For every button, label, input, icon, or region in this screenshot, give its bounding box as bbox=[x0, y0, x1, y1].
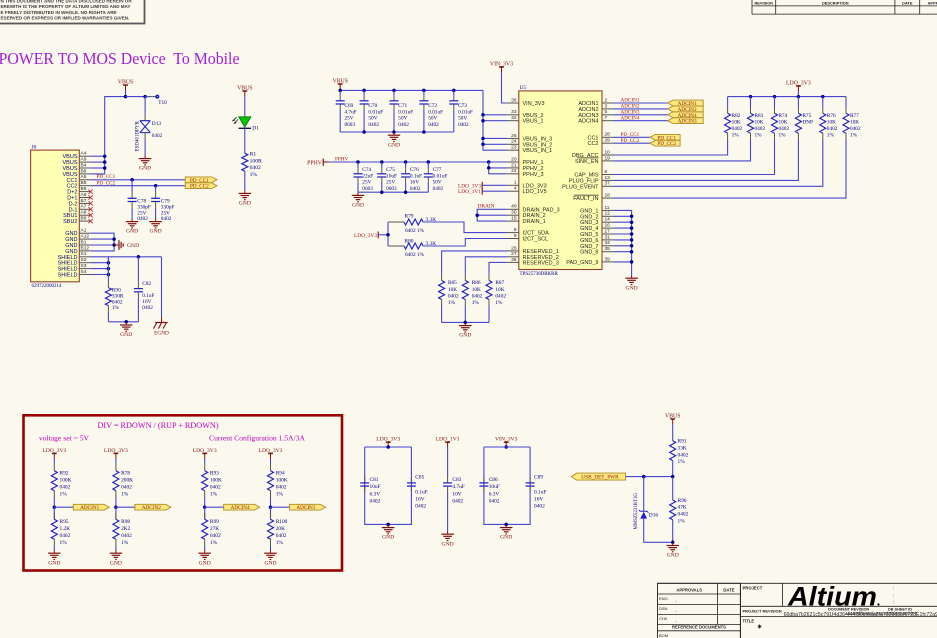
svg-text:R1: R1 bbox=[250, 152, 257, 158]
svg-text:0402: 0402 bbox=[827, 126, 838, 132]
J6 pin B6 D+2 bbox=[79, 191, 90, 193]
svg-text:24: 24 bbox=[511, 139, 517, 145]
svg-text:0.01uF: 0.01uF bbox=[368, 109, 383, 115]
svg-text:25V: 25V bbox=[386, 180, 395, 186]
svg-text:7: 7 bbox=[605, 115, 608, 121]
wire VBUS cap bank top rail bbox=[340, 89, 483, 91]
svg-text:0402: 0402 bbox=[142, 305, 153, 311]
svg-text:S4: S4 bbox=[81, 269, 87, 275]
wire node to R96 bbox=[672, 477, 674, 500]
svg-text:REFERENCE DOCUMENTS: REFERENCE DOCUMENTS bbox=[672, 625, 726, 630]
svg-text:3: 3 bbox=[605, 103, 608, 109]
U5 pin 33 VBUS_2 bbox=[507, 114, 519, 116]
resistor R74 10K bbox=[774, 97, 776, 107]
svg-text:1%: 1% bbox=[732, 132, 740, 138]
ground GND VIN_3V3 caps bbox=[505, 524, 507, 527]
svg-text:40: 40 bbox=[511, 204, 517, 210]
svg-text:APPR: APPR bbox=[928, 0, 937, 5]
svg-text:DATE: DATE bbox=[723, 588, 734, 593]
op-amp U5 TPS25730DRKRR body bbox=[519, 91, 602, 270]
svg-text:27: 27 bbox=[511, 251, 517, 257]
svg-text:DRAIN: DRAIN bbox=[478, 204, 495, 210]
svg-text:VBUS_1: VBUS_1 bbox=[523, 119, 544, 125]
svg-text:9: 9 bbox=[514, 233, 517, 239]
wire VBUS to R91 bbox=[672, 424, 674, 440]
svg-text:16: 16 bbox=[605, 223, 611, 229]
svg-text:100K: 100K bbox=[276, 478, 288, 484]
capacitor C76 0.1uF bbox=[405, 162, 407, 168]
svg-text:1%: 1% bbox=[678, 519, 686, 525]
revision table bbox=[751, 0, 753, 14]
wire I2C pullup rail bbox=[387, 222, 389, 246]
ground GND (ADCIN3 divider) bbox=[270, 550, 272, 553]
wire VBUS pin join bbox=[91, 155, 105, 157]
svg-text:R94: R94 bbox=[276, 471, 285, 477]
svg-text:1%: 1% bbox=[678, 459, 686, 465]
U5 pin 24 VBUS_IN_2 bbox=[507, 143, 519, 145]
U5 pin 15 DRAIN_1 bbox=[507, 220, 519, 222]
svg-text:100K: 100K bbox=[60, 478, 72, 484]
ground GND under C79 bbox=[155, 218, 157, 221]
svg-text:LDO_3V3: LDO_3V3 bbox=[354, 233, 377, 239]
resistor R91 33K bbox=[670, 441, 676, 461]
U5 pin 5 ADCIN3 bbox=[602, 114, 614, 116]
ground GND under R90/C82 bbox=[125, 322, 127, 325]
port ADCIN3 flag bbox=[290, 504, 326, 510]
svg-text:1%: 1% bbox=[448, 300, 456, 306]
title block project area bbox=[739, 583, 741, 638]
port ADCIN1 flag bbox=[668, 100, 704, 106]
svg-text:CC2: CC2 bbox=[587, 141, 598, 147]
svg-text:20: 20 bbox=[511, 156, 517, 162]
wire R80 to SCL bbox=[423, 239, 507, 247]
resistor R83 10K bbox=[750, 97, 752, 107]
svg-text:10K: 10K bbox=[732, 120, 741, 126]
wire R77 to U5 bbox=[614, 140, 846, 198]
resistor R98 2K2 bbox=[115, 507, 117, 519]
resistor R99 27K bbox=[204, 507, 206, 519]
svg-text:0402: 0402 bbox=[534, 504, 545, 510]
wire shield bottom rail bbox=[108, 321, 138, 323]
U5 pin 23 VBUS_IN_1 bbox=[507, 149, 519, 151]
svg-text:PD_CC2: PD_CC2 bbox=[97, 180, 116, 186]
svg-text:GND: GND bbox=[500, 535, 512, 541]
svg-text:10uF: 10uF bbox=[489, 484, 500, 490]
svg-text:10: 10 bbox=[605, 149, 611, 155]
svg-text:GND: GND bbox=[127, 243, 139, 249]
U5 pin 39 PAD_GND_9 bbox=[602, 261, 614, 263]
J6 pin A5 CC1 bbox=[79, 179, 90, 181]
svg-text:R83: R83 bbox=[755, 113, 764, 119]
svg-text:10V: 10V bbox=[452, 491, 461, 497]
svg-text:REVISION: REVISION bbox=[755, 0, 774, 5]
wire net ADCIN1 bbox=[614, 102, 668, 104]
svg-text:36: 36 bbox=[511, 257, 517, 263]
svg-text:47K: 47K bbox=[678, 505, 687, 511]
resistor R75 DNP bbox=[797, 97, 799, 107]
svg-text:0402: 0402 bbox=[458, 122, 469, 128]
capacitor C79 330pF bbox=[155, 186, 157, 191]
svg-text:1%: 1% bbox=[755, 132, 763, 138]
svg-text:1%: 1% bbox=[495, 300, 503, 306]
svg-text:1%: 1% bbox=[250, 172, 258, 178]
svg-text:16V: 16V bbox=[410, 180, 419, 186]
svg-text:39: 39 bbox=[605, 256, 611, 262]
U5 pin 19 SINK_EN bbox=[602, 160, 614, 162]
resistor R90 330R bbox=[107, 281, 109, 288]
svg-text:GND: GND bbox=[199, 560, 211, 566]
svg-text:POWER TO MOS Device To Mobile: POWER TO MOS Device To Mobile bbox=[0, 49, 240, 68]
svg-text:0402: 0402 bbox=[472, 293, 483, 299]
wire VBUS to D13/T10 bbox=[126, 96, 146, 98]
wire R83 to U5 bbox=[614, 140, 751, 161]
wire to ADCIN2 flag bbox=[116, 506, 135, 508]
wire net PD_CC2 (U5) bbox=[614, 142, 650, 144]
resistor R93 100K bbox=[204, 464, 206, 471]
J6 pin S3 SHIELD bbox=[79, 268, 90, 270]
svg-text:GND: GND bbox=[382, 535, 394, 541]
svg-text:0603: 0603 bbox=[386, 186, 397, 192]
svg-text:GND: GND bbox=[352, 203, 364, 209]
svg-text:4da50df5aa8fa7329d8bf0723Ebf07: 4da50df5aa8fa7329d8bf0723Ebf07 bbox=[845, 611, 917, 616]
svg-text:6.3V: 6.3V bbox=[370, 491, 381, 497]
resistor R100 20K bbox=[270, 507, 272, 519]
resistor R80 3.3K bbox=[388, 245, 404, 247]
svg-text:6: 6 bbox=[605, 169, 608, 175]
svg-text:B1: B1 bbox=[81, 239, 87, 245]
U5 pin 4 LDO_1V5 bbox=[507, 190, 519, 192]
wire R85 to RESERVED bbox=[442, 251, 507, 274]
svg-text:GND: GND bbox=[139, 166, 151, 172]
svg-text:1%: 1% bbox=[276, 491, 284, 497]
svg-text:CHK: CHK bbox=[659, 616, 668, 621]
svg-text:0402: 0402 bbox=[398, 122, 409, 128]
svg-text:C72: C72 bbox=[428, 103, 437, 109]
wire R87 to RESERVED bbox=[489, 262, 507, 273]
wire VIN_3V3 cap loop bbox=[504, 445, 508, 449]
svg-text:C76: C76 bbox=[410, 167, 419, 173]
svg-text:EREWITH IS THE PROPERTY OF ALT: EREWITH IS THE PROPERTY OF ALTIUM LIMITE… bbox=[1, 4, 131, 9]
ground GND (ADCIN4 divider) bbox=[204, 550, 206, 553]
svg-text:1%: 1% bbox=[276, 540, 284, 546]
wire R86 to RESERVED bbox=[465, 257, 507, 274]
port ADCIN2 flag bbox=[135, 504, 171, 510]
svg-text:PD_CC2: PD_CC2 bbox=[621, 138, 640, 144]
resistor R96 47K bbox=[670, 500, 676, 520]
wire pullup bank rail bbox=[728, 96, 846, 98]
svg-text:GND: GND bbox=[667, 553, 679, 559]
svg-text:0402: 0402 bbox=[210, 533, 221, 539]
svg-text:22: 22 bbox=[511, 168, 517, 174]
svg-text:ADCIN4: ADCIN4 bbox=[621, 115, 640, 121]
svg-text:0402: 0402 bbox=[433, 186, 444, 192]
svg-text:13: 13 bbox=[605, 175, 611, 181]
svg-text:0402: 0402 bbox=[276, 484, 287, 490]
svg-text:34: 34 bbox=[605, 240, 611, 246]
svg-text:DRAIN_1: DRAIN_1 bbox=[523, 219, 546, 225]
svg-text:LDO_1V1: LDO_1V1 bbox=[458, 189, 481, 195]
svg-text:10K: 10K bbox=[495, 287, 504, 293]
svg-text:LDO_1V5: LDO_1V5 bbox=[523, 189, 547, 195]
ground GND sense divider bbox=[672, 542, 674, 545]
svg-text:N THIS DOCUMENT AND THE DATA D: N THIS DOCUMENT AND THE DATA DISCLOSED H… bbox=[1, 0, 133, 4]
svg-text:2K2: 2K2 bbox=[121, 526, 131, 532]
capacitor C77 0.01uF bbox=[427, 162, 429, 168]
wire net PD_CC1 (U5) bbox=[614, 136, 650, 138]
svg-text:10K: 10K bbox=[448, 287, 457, 293]
ground GND under C78 bbox=[131, 218, 133, 221]
J6 pin B9 VBUS bbox=[79, 173, 90, 175]
wire divider bottom rail bbox=[644, 541, 673, 543]
svg-text:0402: 0402 bbox=[60, 484, 71, 490]
svg-text:0402: 0402 bbox=[370, 499, 381, 505]
svg-text:GND: GND bbox=[48, 560, 60, 566]
svg-text:C85: C85 bbox=[415, 475, 424, 481]
svg-text:GND: GND bbox=[388, 142, 400, 148]
svg-text:12: 12 bbox=[605, 211, 611, 217]
U5 pin 36 RESERVED_3 bbox=[507, 261, 519, 263]
svg-text::: : bbox=[893, 593, 894, 599]
svg-text:TITLE: TITLE bbox=[743, 619, 755, 624]
svg-text:TPS25730DRKRR: TPS25730DRKRR bbox=[520, 272, 559, 277]
svg-text:E FREELY DISTRIBUTED IN WHOLE.: E FREELY DISTRIBUTED IN WHOLE. NO RIGHTS… bbox=[1, 10, 117, 15]
svg-text:0402: 0402 bbox=[121, 484, 132, 490]
U5 pin 10 DBG_ACC bbox=[602, 154, 614, 156]
svg-text:1: 1 bbox=[514, 180, 517, 186]
svg-text:C86: C86 bbox=[489, 477, 498, 483]
capacitor C72 0.01uF bbox=[423, 90, 425, 95]
svg-text:0402: 0402 bbox=[732, 126, 743, 132]
svg-text:T10: T10 bbox=[158, 100, 167, 106]
J6 pin B1 GND bbox=[79, 244, 90, 246]
svg-text:14: 14 bbox=[605, 217, 611, 223]
svg-text:R74: R74 bbox=[779, 113, 788, 119]
wire DRAIN bus bbox=[477, 209, 507, 221]
svg-text:0402: 0402 bbox=[410, 186, 421, 192]
U5 pin 11 GND_1 bbox=[602, 209, 614, 211]
svg-text:35: 35 bbox=[605, 246, 611, 252]
svg-text:DATE: DATE bbox=[902, 0, 913, 5]
svg-text:B12: B12 bbox=[81, 245, 90, 251]
wire net ADCIN4 bbox=[614, 120, 668, 122]
ground GND under R85-R87 bbox=[464, 322, 466, 325]
svg-text:R87: R87 bbox=[495, 280, 504, 286]
svg-text:R75: R75 bbox=[802, 113, 811, 119]
svg-text:S3: S3 bbox=[81, 263, 87, 269]
svg-text:1%: 1% bbox=[472, 300, 480, 306]
U5 pin 40 DRAIN_PAD_3 bbox=[507, 208, 519, 210]
svg-text:PD_CC1: PD_CC1 bbox=[97, 174, 116, 180]
U5 pin 21 PPHV_2 bbox=[507, 167, 519, 169]
svg-text:0402: 0402 bbox=[489, 499, 500, 505]
svg-text:0402: 0402 bbox=[121, 533, 132, 539]
svg-text:A5: A5 bbox=[81, 174, 87, 180]
resistor R95 1.2K bbox=[53, 507, 55, 519]
svg-text:0402: 0402 bbox=[368, 122, 379, 128]
svg-text:A1: A1 bbox=[81, 228, 87, 234]
svg-text:0402: 0402 bbox=[152, 133, 163, 139]
J6 pin B8 SBU2 bbox=[79, 220, 90, 222]
wire CC1 net PD_CC1 bbox=[91, 179, 186, 181]
svg-text:D1: D1 bbox=[252, 126, 259, 132]
svg-text:C75: C75 bbox=[386, 167, 395, 173]
svg-text:C81: C81 bbox=[370, 477, 379, 483]
capacitor C83 4.7uF bbox=[447, 447, 449, 477]
capacitor C82 0.1uF bbox=[137, 257, 139, 282]
svg-text:10K: 10K bbox=[779, 120, 788, 126]
svg-text:R100: R100 bbox=[276, 519, 288, 525]
svg-text:25: 25 bbox=[511, 133, 517, 139]
wire J6 GND bus bbox=[91, 233, 115, 251]
svg-text:EGND: EGND bbox=[154, 331, 169, 337]
svg-text:voltage set = 5V: voltage set = 5V bbox=[39, 434, 90, 443]
svg-text:1%: 1% bbox=[60, 491, 68, 497]
resistor R79 3.3K bbox=[388, 221, 404, 223]
U5 pin 12 GND_2 bbox=[602, 215, 614, 217]
svg-text:0402: 0402 bbox=[755, 126, 766, 132]
U5 pin 25 VBUS_IN_3 bbox=[507, 137, 519, 139]
svg-text:0402: 0402 bbox=[850, 126, 861, 132]
svg-text:ADCIN3: ADCIN3 bbox=[296, 505, 315, 511]
ground GND sideways (J6) bbox=[114, 244, 119, 246]
svg-text:ESERVED OR EXPRESS OR IMPLIED: ESERVED OR EXPRESS OR IMPLIED WARRANTIES… bbox=[1, 16, 130, 21]
svg-text:16V: 16V bbox=[415, 496, 424, 502]
J6 pin A12 GND bbox=[79, 238, 90, 240]
wire to ADCIN3 flag bbox=[271, 506, 290, 508]
wire U5 GND rail bbox=[614, 210, 632, 275]
wire VBUS rail to U5 bbox=[483, 90, 507, 150]
U5 pin 17 GND_5 bbox=[602, 233, 614, 235]
U5 pin 26 RESERVED_1 bbox=[507, 250, 519, 252]
svg-text:17: 17 bbox=[605, 228, 611, 234]
capacitor C71 0.01uF bbox=[393, 90, 395, 95]
svg-text:15: 15 bbox=[511, 216, 517, 222]
ground GND U5 bbox=[631, 275, 633, 278]
ground GND PPHV caps bbox=[357, 192, 359, 195]
svg-text:PLUG_EVENT: PLUG_EVENT bbox=[562, 184, 599, 190]
wire VBUS pin join bbox=[91, 161, 105, 163]
port PD_CC1 flag bbox=[185, 177, 217, 183]
svg-text:GND: GND bbox=[120, 332, 132, 338]
resistor R77 10K bbox=[845, 97, 847, 107]
svg-text:R93: R93 bbox=[210, 471, 219, 477]
connector J6 USB-C 629722000214 bbox=[31, 150, 80, 282]
svg-text:0402: 0402 bbox=[250, 165, 261, 171]
svg-text:C69: C69 bbox=[345, 103, 354, 109]
U5 pin 7 ADCIN4 bbox=[602, 120, 614, 122]
title block approvals table bbox=[658, 582, 937, 584]
svg-text:10K: 10K bbox=[755, 120, 764, 126]
U5 pin 22 PPHV_3 bbox=[507, 173, 519, 175]
svg-text:ESD401DPYR: ESD401DPYR bbox=[135, 121, 140, 152]
wire to ADCIN1 flag bbox=[54, 506, 73, 508]
wire USB_DET_PWR node bbox=[626, 476, 673, 478]
svg-text:30: 30 bbox=[511, 210, 517, 216]
svg-text:MMSZ5231BT1G: MMSZ5231BT1G bbox=[634, 493, 639, 530]
svg-text:GND: GND bbox=[150, 229, 162, 235]
zener diode D16 MMSZ5231BT1G bbox=[643, 477, 645, 511]
svg-text:R82: R82 bbox=[732, 113, 741, 119]
U5 pin 13 PLUG_FLIP bbox=[602, 179, 614, 181]
U5 pin 16 GND_4 bbox=[602, 227, 614, 229]
svg-text:200K: 200K bbox=[121, 478, 133, 484]
svg-text:I2CT_SCL: I2CT_SCL bbox=[523, 237, 549, 243]
wire R74 to U5 bbox=[614, 140, 775, 175]
svg-text:GND: GND bbox=[459, 333, 471, 339]
svg-text:SBU2: SBU2 bbox=[63, 219, 77, 225]
U5 pin 31 GND_6 bbox=[602, 239, 614, 241]
svg-text:1%: 1% bbox=[60, 540, 68, 546]
svg-text:C70: C70 bbox=[368, 103, 377, 109]
svg-text:10uF: 10uF bbox=[386, 173, 397, 179]
resistor R78 200K bbox=[115, 464, 117, 471]
svg-text:0402 1%: 0402 1% bbox=[405, 252, 425, 258]
wire to ADCIN4 flag bbox=[205, 506, 224, 508]
svg-text:0402: 0402 bbox=[779, 126, 790, 132]
svg-text:DESCRIPTION: DESCRIPTION bbox=[822, 0, 849, 5]
resistor R82 10K bbox=[727, 97, 729, 107]
svg-text:0402: 0402 bbox=[60, 533, 71, 539]
J6 pin S2 SHIELD bbox=[79, 262, 90, 264]
svg-text:29: 29 bbox=[605, 138, 611, 144]
svg-text:R86: R86 bbox=[472, 280, 481, 286]
capacitor C70 0.01uF bbox=[363, 90, 365, 95]
wire R76 to U5 bbox=[614, 140, 823, 186]
port ADCIN3 flag bbox=[668, 118, 704, 124]
svg-text:GND: GND bbox=[626, 285, 638, 291]
resistor R92 100K bbox=[53, 464, 55, 471]
svg-text:DSN: DSN bbox=[659, 606, 668, 611]
svg-text:1%: 1% bbox=[850, 132, 858, 138]
svg-text:50V: 50V bbox=[458, 116, 467, 122]
copyright notice box bbox=[0, 0, 145, 24]
capacitor C85 0.1uF bbox=[410, 477, 412, 483]
svg-text:1%: 1% bbox=[121, 491, 129, 497]
U5 pin 27 RESERVED_2 bbox=[507, 256, 519, 258]
capacitor C75 10uF bbox=[381, 162, 383, 168]
svg-text:32: 32 bbox=[511, 115, 517, 121]
svg-text:5: 5 bbox=[605, 109, 608, 115]
svg-text:28: 28 bbox=[605, 132, 611, 138]
capacitor C78 330pF bbox=[131, 180, 133, 191]
svg-text:R99: R99 bbox=[210, 519, 219, 525]
svg-text:✱: ✱ bbox=[757, 623, 762, 630]
wire shield to R90 bbox=[107, 257, 109, 281]
svg-text:629722000214: 629722000214 bbox=[32, 284, 63, 289]
svg-text:RESERVED_3: RESERVED_3 bbox=[523, 260, 559, 266]
wire PPHV to pins 21 22 bbox=[489, 162, 507, 174]
svg-text:SINK_EN: SINK_EN bbox=[575, 159, 599, 165]
U5 pin 28 CC1 bbox=[602, 136, 614, 138]
rule box DIV = RDOWN/(RUP+RDOWN) bbox=[24, 415, 343, 570]
wire VBUS to LED D1 bbox=[244, 96, 246, 116]
wire CC2 net PD_CC2 bbox=[91, 185, 186, 187]
svg-text:GND: GND bbox=[239, 201, 251, 207]
svg-text:0402: 0402 bbox=[137, 216, 148, 222]
capacitor C89 0.1uF bbox=[529, 477, 531, 483]
svg-text:11: 11 bbox=[605, 205, 610, 211]
svg-text:A12: A12 bbox=[81, 234, 90, 240]
svg-text:ADCIN2: ADCIN2 bbox=[142, 505, 161, 511]
U5 pin 30 DRAIN_2 bbox=[507, 214, 519, 216]
svg-text:0.01uF: 0.01uF bbox=[428, 109, 443, 115]
svg-text:1%: 1% bbox=[112, 305, 120, 311]
U5 pin 8 I2CT_SDA bbox=[507, 232, 519, 234]
svg-text:38: 38 bbox=[511, 97, 517, 103]
U5 pin 18 FAULT_IN bbox=[602, 197, 614, 199]
svg-text:ADCIN1: ADCIN1 bbox=[80, 505, 99, 511]
svg-text:S2: S2 bbox=[81, 257, 87, 263]
